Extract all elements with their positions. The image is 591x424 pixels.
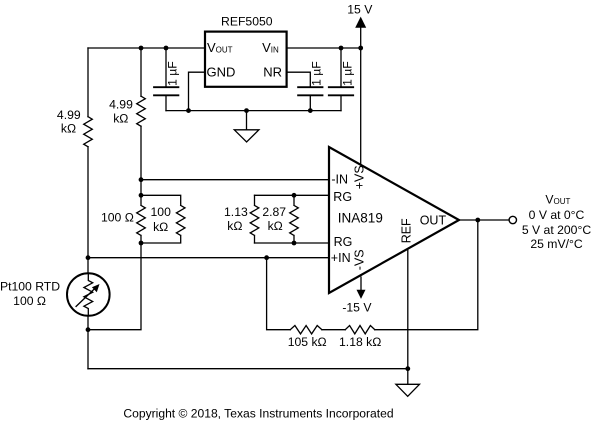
wire left branch vertical lower (R1 to RTD) bbox=[87, 147, 89, 274]
node 100 pair top bbox=[139, 193, 144, 198]
wire 100 ohm bottom down to RTD bottom bbox=[88, 243, 141, 330]
wire VIN rail bbox=[287, 47, 361, 49]
wire +15V supply stub bbox=[360, 28, 362, 49]
RTD arrow bbox=[76, 288, 96, 307]
wire RG top rail to INA819 bbox=[255, 194, 330, 196]
svg-text:4.99: 4.99 bbox=[57, 108, 81, 122]
resistor 1.13k branch bbox=[250, 195, 259, 243]
resistor R 4.99k second bbox=[137, 96, 146, 126]
node RTD bottom bbox=[86, 327, 91, 332]
svg-text:15 V: 15 V bbox=[347, 2, 373, 16]
svg-text:kΩ: kΩ bbox=[61, 121, 76, 135]
svg-text:kΩ: kΩ bbox=[227, 219, 242, 233]
REF5050 box U1 bbox=[205, 32, 287, 87]
svg-text:105 kΩ: 105 kΩ bbox=[288, 335, 327, 349]
svg-text:1 µF: 1 µF bbox=[310, 61, 324, 86]
svg-text:Pt100 RTD: Pt100 RTD bbox=[0, 279, 60, 293]
wire bottom ground rail bbox=[88, 368, 408, 370]
node 100 pair bottom bbox=[139, 241, 144, 246]
output terminal circle bbox=[509, 216, 516, 223]
node top rail / R2 bbox=[139, 46, 144, 51]
RTD sensor circle bbox=[67, 273, 110, 316]
op-amp U2 INA819 triangle bbox=[329, 147, 459, 293]
resistor 100 ohm bbox=[137, 195, 146, 243]
node gnd rail / ground symbol bbox=[244, 108, 249, 113]
wire left branch vertical upper (to R1) bbox=[87, 48, 89, 117]
resistor 100k parallel branch bbox=[141, 195, 185, 243]
svg-text:1 µF: 1 µF bbox=[165, 61, 179, 86]
node RG bottom bbox=[292, 241, 297, 246]
svg-text:25 mV/°C: 25 mV/°C bbox=[530, 237, 582, 251]
node -IN bbox=[139, 177, 144, 182]
node gnd rail / GND wire bbox=[186, 108, 191, 113]
svg-text:INA819: INA819 bbox=[338, 210, 383, 225]
wire top rail from left branch to REF5050 VOUT bbox=[88, 47, 205, 49]
svg-text:RG: RG bbox=[333, 190, 352, 204]
svg-text:kΩ: kΩ bbox=[268, 219, 283, 233]
resistor 1.18k bbox=[345, 326, 375, 334]
wire REF pin down to ground bbox=[407, 249, 409, 369]
node VIN rail / C3 bbox=[339, 46, 344, 51]
wire feedback right to OUT node bbox=[375, 220, 478, 330]
svg-text:100 Ω: 100 Ω bbox=[101, 210, 134, 224]
svg-text:GND: GND bbox=[207, 64, 236, 79]
svg-text:+VS: +VS bbox=[352, 165, 366, 189]
svg-text:-VS: -VS bbox=[352, 249, 366, 270]
svg-text:1.18 kΩ: 1.18 kΩ bbox=[339, 335, 381, 349]
svg-text:0 V at 0°C: 0 V at 0°C bbox=[529, 208, 585, 222]
svg-text:100 Ω: 100 Ω bbox=[13, 294, 46, 308]
svg-text:kΩ: kΩ bbox=[113, 111, 128, 125]
svg-text:+IN: +IN bbox=[331, 251, 351, 265]
wire RTD bottom to bottom rail bbox=[87, 316, 89, 369]
capacitor C2 1uF (NR) bbox=[287, 72, 311, 110]
ground symbol under REF5050 bbox=[234, 111, 259, 142]
svg-text:100: 100 bbox=[151, 205, 172, 219]
node OUT bbox=[475, 218, 480, 223]
svg-text:5 V at 200°C: 5 V at 200°C bbox=[522, 223, 591, 237]
node REF ground bbox=[405, 366, 410, 371]
node VIN rail / +VS bbox=[358, 46, 363, 51]
wire +IN rail bbox=[88, 257, 329, 259]
wire REF5050 decoupling ground rail bbox=[166, 110, 341, 112]
capacitor C1 1uF (VOUT) bbox=[165, 48, 167, 111]
svg-text:2.87: 2.87 bbox=[262, 205, 286, 219]
svg-text:-IN: -IN bbox=[331, 172, 348, 186]
resistor R 4.99k left bbox=[84, 117, 93, 147]
svg-text:1 µF: 1 µF bbox=[340, 61, 354, 86]
power symbol +15V arrow bbox=[355, 17, 366, 28]
wire second branch vertical upper (to R2) bbox=[140, 48, 142, 96]
wire OUT to terminal bbox=[459, 219, 509, 221]
svg-text:1.13: 1.13 bbox=[224, 205, 248, 219]
wire feedback left drop bbox=[267, 258, 291, 330]
node gnd rail / C2 bbox=[308, 108, 313, 113]
node +IN left bbox=[86, 255, 91, 260]
ground symbol bottom right bbox=[396, 369, 420, 397]
wire R2 to -IN node bbox=[140, 126, 142, 195]
power symbol -15V arrow on -VS pin bbox=[360, 276, 362, 290]
node RG top bbox=[292, 193, 297, 198]
node +IN feedback bbox=[264, 255, 269, 260]
svg-text:-15 V: -15 V bbox=[342, 301, 372, 315]
resistor 105k bbox=[290, 326, 322, 334]
junction node dots bbox=[86, 46, 481, 372]
wire RG bottom rail to INA819 bbox=[255, 242, 330, 244]
wire +VS down to INA819 bbox=[360, 48, 362, 165]
wire -IN to INA819 bbox=[141, 179, 329, 181]
svg-text:NR: NR bbox=[263, 64, 282, 79]
svg-text:Copyright © 2018, Texas Instru: Copyright © 2018, Texas Instruments Inco… bbox=[123, 407, 393, 421]
svg-text:REF: REF bbox=[399, 218, 413, 243]
wire between 105k and 1.18k bbox=[322, 329, 345, 331]
svg-text:4.99: 4.99 bbox=[109, 97, 133, 111]
svg-text:REF5050: REF5050 bbox=[221, 15, 273, 29]
resistor 2.87k branch bbox=[290, 195, 299, 243]
node top rail / C1 bbox=[164, 46, 169, 51]
wire REF5050 GND pin bbox=[189, 72, 206, 110]
capacitor C3 1uF (VIN) bbox=[340, 48, 342, 111]
svg-text:OUT: OUT bbox=[420, 213, 447, 227]
svg-text:RG: RG bbox=[334, 235, 353, 249]
svg-text:kΩ: kΩ bbox=[153, 220, 168, 234]
RTD internal zigzag bbox=[84, 273, 93, 316]
